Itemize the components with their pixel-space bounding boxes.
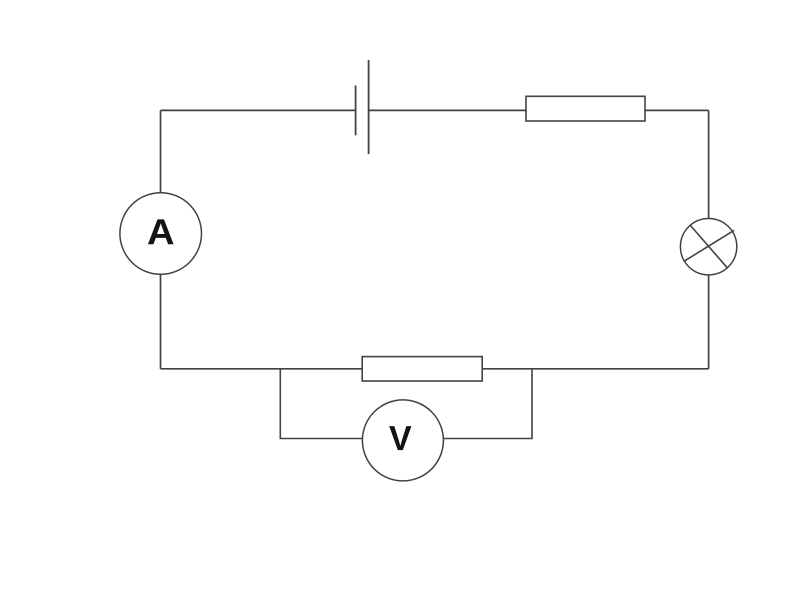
wire battery to resistor R1 bbox=[369, 109, 526, 111]
ammeter A1 circle bbox=[120, 193, 202, 275]
lamp L1 circle bbox=[680, 219, 736, 275]
voltmeter V1 circle bbox=[362, 400, 443, 481]
battery B1 long plate bbox=[368, 60, 370, 154]
wire resistor R1 to top-right corner bbox=[645, 109, 709, 111]
wire voltmeter branch right bbox=[443, 369, 532, 439]
wire right vertical lower bbox=[708, 275, 710, 369]
wire left vertical lower bbox=[160, 274, 162, 369]
lamp L1 cross line 1 bbox=[690, 225, 728, 269]
wire bottom right (corner to resistor R2) bbox=[482, 368, 708, 370]
wire bottom left (resistor R2 to corner) bbox=[161, 368, 363, 370]
wire left vertical upper bbox=[160, 110, 162, 192]
battery B1 short plate bbox=[355, 86, 357, 136]
wire top-left (battery to left corner) bbox=[161, 109, 356, 111]
wire voltmeter branch left bbox=[280, 369, 362, 439]
ammeter A1 label A bbox=[148, 219, 174, 244]
resistor R1 (top) bbox=[526, 96, 645, 121]
wire right vertical upper bbox=[708, 110, 710, 218]
voltmeter V1 label V bbox=[389, 426, 411, 450]
resistor R2 (bottom) bbox=[362, 357, 482, 381]
lamp L1 cross line 2 bbox=[684, 230, 734, 261]
